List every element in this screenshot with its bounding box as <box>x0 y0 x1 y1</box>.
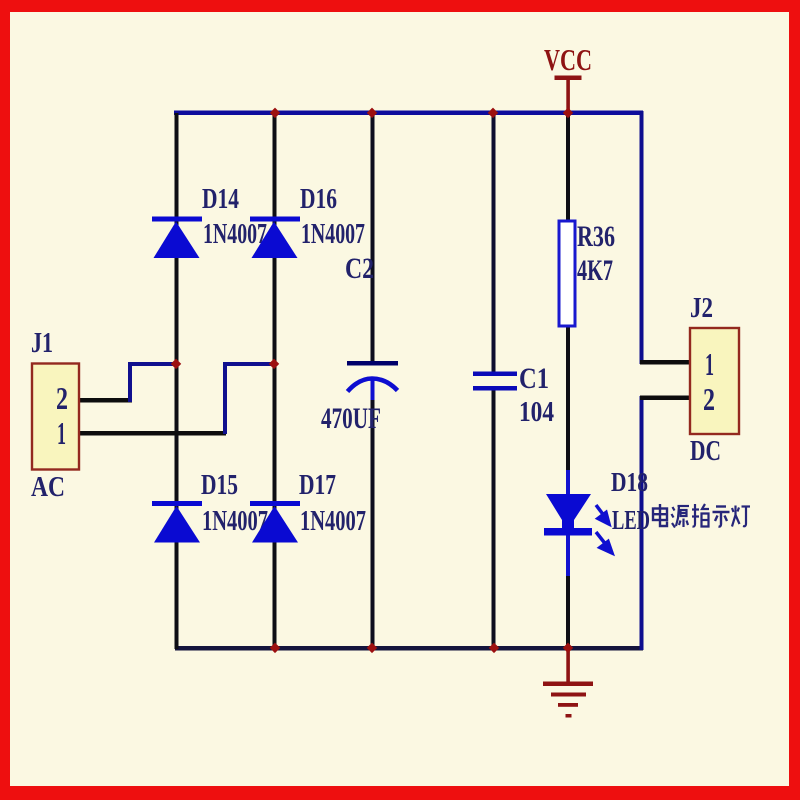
wire J1 pin1 horizontal <box>78 431 226 436</box>
diode D16 <box>250 217 300 259</box>
svg-text:1: 1 <box>705 346 714 382</box>
wire LED cathode blue stub <box>566 534 570 578</box>
wire R36 column upper <box>566 113 570 221</box>
svg-text:470UF: 470UF <box>321 402 381 435</box>
hanzi yuan (source) <box>672 506 690 528</box>
wire D14/D15 column <box>175 113 179 649</box>
svg-text:DC: DC <box>690 435 721 467</box>
svg-text:104: 104 <box>519 397 554 428</box>
node dot top bus / VCC <box>563 108 573 118</box>
wire C1 column lower <box>492 388 496 648</box>
hanzi zhi (point) <box>692 504 709 527</box>
wire J2 column lower <box>640 396 644 650</box>
node dot bottom bus / C2 <box>367 643 377 653</box>
capacitor C1 <box>473 372 517 391</box>
node dot bottom bus / C1 <box>489 643 499 653</box>
diode D17 <box>250 501 300 543</box>
wire LED to ground bus <box>566 576 570 648</box>
svg-text:1N4007: 1N4007 <box>202 506 268 537</box>
connector J1 <box>32 364 79 470</box>
resistor R36 <box>559 221 575 326</box>
node dot J1 pin2 / D14 branch <box>171 359 181 369</box>
hanzi deng (lamp) <box>732 506 750 527</box>
svg-text:1: 1 <box>57 415 66 451</box>
svg-text:D17: D17 <box>299 470 336 501</box>
wire J2 pin2 <box>640 396 691 401</box>
wire C2 column upper <box>371 113 375 363</box>
wire J1 pin2 vertical <box>128 362 132 402</box>
svg-text:LED: LED <box>612 505 650 535</box>
power VCC symbol <box>555 76 582 113</box>
wire J2 pin1 <box>640 360 691 365</box>
wire D16/D17 column <box>273 113 277 649</box>
node dot bottom bus / D17 <box>270 643 280 653</box>
svg-text:2: 2 <box>703 381 715 417</box>
svg-text:1N4007: 1N4007 <box>300 506 366 537</box>
LED D18 <box>544 494 592 536</box>
node dot bottom bus / LED ground <box>563 643 573 653</box>
node dot J1 pin1 / D16 branch <box>269 359 279 369</box>
wire top bus <box>174 111 643 116</box>
svg-text:D16: D16 <box>300 183 337 215</box>
svg-text:R36: R36 <box>577 220 615 253</box>
wire C2 column lower <box>371 400 375 648</box>
wire J1 pin2 horizontal <box>78 398 132 403</box>
svg-text:C1: C1 <box>519 362 549 395</box>
svg-text:J2: J2 <box>690 292 713 324</box>
svg-text:D15: D15 <box>201 470 238 501</box>
wire LED anode blue stub <box>566 470 570 495</box>
wire J2 column upper <box>640 111 644 364</box>
hanzi shi (show) <box>713 507 730 527</box>
ground <box>543 648 593 718</box>
wire J1 pin2 to node <box>128 362 177 366</box>
wire C1 column upper <box>492 113 496 373</box>
connector J2 <box>690 328 739 434</box>
svg-text:1N4007: 1N4007 <box>301 219 365 250</box>
svg-text:VCC: VCC <box>544 42 592 77</box>
node dot top bus / C2 <box>367 108 377 118</box>
node dot top bus / C1 <box>488 108 498 118</box>
wire J1 pin1 to node <box>223 362 275 366</box>
LED arrow 2 <box>596 532 612 553</box>
wire C2 column blue stub <box>371 380 375 402</box>
svg-text:J1: J1 <box>31 327 53 359</box>
hanzi dian (electric) <box>653 504 667 526</box>
svg-text:C2: C2 <box>345 252 374 285</box>
svg-text:1N4007: 1N4007 <box>203 219 267 250</box>
svg-text:D18: D18 <box>611 467 648 497</box>
svg-text:AC: AC <box>31 471 65 503</box>
diode D14 <box>152 217 202 259</box>
wire J1 pin1 vertical <box>223 362 227 434</box>
wire R36 to LED <box>566 326 570 472</box>
capacitor C2 <box>347 361 398 392</box>
svg-text:4K7: 4K7 <box>577 254 613 287</box>
svg-text:D14: D14 <box>202 183 239 215</box>
node dot top bus / D16 <box>270 108 280 118</box>
LED arrow 1 <box>596 505 609 524</box>
diode D15 <box>152 501 202 543</box>
svg-text:2: 2 <box>56 380 68 416</box>
wire bottom bus <box>175 646 643 651</box>
